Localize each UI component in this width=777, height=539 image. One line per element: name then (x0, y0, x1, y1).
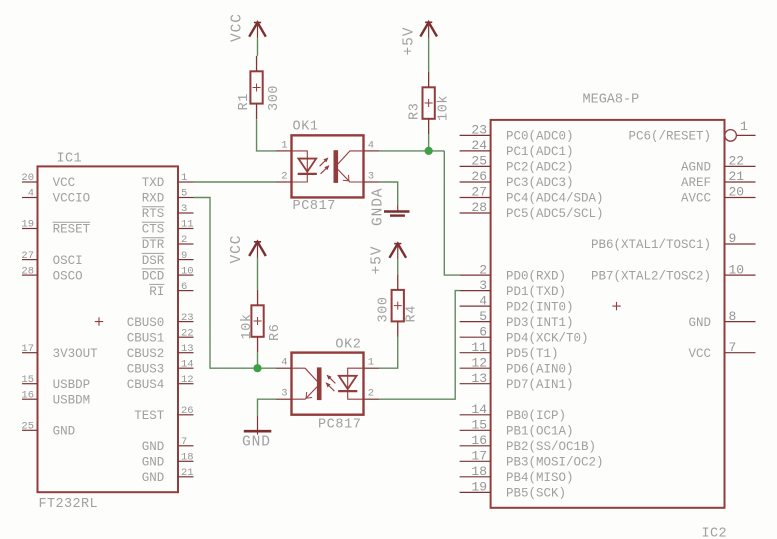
IC1 pin 15 (USBDP) left (21, 374, 90, 392)
svg-text:1: 1 (181, 172, 187, 184)
label GND net (242, 435, 271, 451)
svg-text:19: 19 (21, 219, 34, 231)
svg-text:PD2(INT0): PD2(INT0) (506, 300, 574, 314)
origin cross IC2 (612, 302, 620, 310)
IC2 pin 22 (AGND) right (681, 154, 756, 175)
svg-text:2: 2 (368, 388, 374, 400)
IC1 pin 12 (CBUS4) right (127, 374, 194, 392)
IC2 pin 12 (PD6(AIN0)) left (460, 355, 574, 376)
svg-text:USBDP: USBDP (53, 378, 91, 392)
IC1 pin 4 (VCCIO) left (22, 188, 90, 206)
svg-text:PB2(SS/OC1B): PB2(SS/OC1B) (506, 440, 596, 454)
svg-text:20: 20 (729, 185, 745, 200)
ground symbol GNDA (analog ground, below OK1 pin 3) (384, 205, 410, 216)
label PC817 (value of OK2) (318, 418, 362, 433)
IC2 pin 14 (PB0(ICP)) left (460, 402, 566, 423)
svg-text:TEST: TEST (134, 409, 165, 423)
resistor R3 (423, 72, 435, 135)
svg-text:+5V: +5V (370, 246, 386, 275)
svg-text:CBUS0: CBUS0 (127, 316, 165, 330)
origin cross IC1 (95, 317, 103, 325)
svg-text:17: 17 (471, 449, 487, 464)
svg-text:2: 2 (181, 234, 187, 246)
svg-text:GND: GND (688, 316, 711, 330)
svg-text:R4: R4 (404, 305, 419, 322)
IC2 pin 25 (PC2(ADC2)) left (460, 154, 574, 175)
wire VCC to R1 top (257, 38, 259, 56)
svg-text:GND: GND (142, 440, 165, 454)
svg-text:PB1(OC1A): PB1(OC1A) (506, 425, 574, 439)
svg-text:11: 11 (181, 219, 194, 231)
wire VCC to R6 top (257, 257, 259, 290)
svg-text:PC4(ADC4/SDA): PC4(ADC4/SDA) (506, 192, 604, 206)
svg-text:3: 3 (181, 203, 187, 215)
OK1 pin 4 (364, 139, 380, 151)
svg-text:28: 28 (21, 265, 34, 277)
svg-text:PD4(XCK/T0): PD4(XCK/T0) (506, 331, 589, 345)
svg-text:PC3(ADC3): PC3(ADC3) (506, 176, 574, 190)
svg-text:1: 1 (740, 119, 748, 134)
OK2 pin 1 (364, 357, 380, 369)
svg-text:11: 11 (471, 340, 487, 355)
svg-text:PC817: PC817 (318, 418, 362, 433)
svg-text:CBUS4: CBUS4 (127, 378, 165, 392)
svg-text:PC2(ADC2): PC2(ADC2) (506, 161, 574, 175)
IC2 pin 13 (PD7(AIN1)) left (460, 371, 574, 392)
ground symbol GND (below OK2 pin 3) (244, 416, 271, 435)
IC1 pin 27 (OSCI) left (21, 250, 82, 268)
svg-text:OSCI: OSCI (53, 254, 83, 268)
IC1 pin 23 (CBUS0) right (127, 312, 194, 330)
svg-text:22: 22 (729, 154, 745, 169)
svg-text:26: 26 (181, 405, 194, 417)
svg-text:4: 4 (281, 357, 287, 369)
svg-text:DSR: DSR (142, 254, 165, 268)
supply symbol VCC (middle, above R6) (249, 242, 266, 258)
svg-text:DCD: DCD (142, 269, 165, 283)
svg-text:PD7(AIN1): PD7(AIN1) (506, 378, 574, 392)
svg-text:21: 21 (729, 169, 745, 184)
svg-text:PD6(AIN0): PD6(AIN0) (506, 362, 574, 376)
svg-text:27: 27 (21, 250, 34, 262)
svg-text:3V3OUT: 3V3OUT (53, 347, 99, 361)
label MEGA8-P (value) (583, 93, 640, 108)
svg-text:17: 17 (21, 343, 34, 355)
svg-text:26: 26 (471, 169, 487, 184)
IC U2 MEGA8-P body (IC2) (491, 120, 725, 508)
svg-text:R6: R6 (268, 324, 283, 341)
svg-text:CBUS2: CBUS2 (127, 347, 165, 361)
svg-text:15: 15 (471, 418, 487, 433)
svg-text:300: 300 (377, 296, 392, 322)
IC2 pin 27 (PC4(ADC4/SDA)) left (460, 185, 604, 206)
svg-text:PB0(ICP): PB0(ICP) (506, 409, 566, 423)
svg-text:14: 14 (181, 358, 194, 370)
wire +5V to R3 top (428, 38, 430, 72)
svg-text:9: 9 (181, 250, 187, 262)
svg-text:PB4(MISO): PB4(MISO) (506, 471, 574, 485)
svg-text:+5V: +5V (402, 27, 418, 56)
IC1 pin 10 (DCD) right (142, 265, 194, 283)
svg-text:USBDM: USBDM (53, 393, 91, 407)
svg-text:16: 16 (471, 433, 487, 448)
svg-text:19: 19 (471, 480, 487, 495)
wire R4 bottom to OK2 pin 1 (379, 337, 398, 368)
OK1 pin 2 (276, 171, 292, 183)
svg-text:PC5(ADC5/SCL): PC5(ADC5/SCL) (506, 207, 604, 221)
svg-text:GNDA: GNDA (371, 188, 387, 226)
IC1 pin 9 (DSR) right (142, 250, 194, 268)
svg-text:PB6(XTAL1/TOSC1): PB6(XTAL1/TOSC1) (591, 238, 711, 252)
svg-text:PC1(ADC1): PC1(ADC1) (506, 145, 574, 159)
svg-text:4: 4 (479, 293, 487, 308)
svg-text:OSCO: OSCO (53, 269, 83, 283)
IC1 pin 19 (RESET) left (21, 219, 90, 237)
svg-text:7: 7 (729, 340, 737, 355)
label OK2 (name) (335, 337, 361, 352)
svg-text:10: 10 (729, 262, 745, 277)
IC1 pin 26 (TEST) right (134, 405, 193, 423)
IC2 pin 21 (AREF) right (681, 169, 756, 190)
IC2 pin 8 (GND) right (688, 309, 755, 330)
IC1 pin 28 (OSCO) left (21, 265, 82, 283)
svg-text:6: 6 (181, 281, 187, 293)
svg-text:16: 16 (21, 389, 34, 401)
IC1 pin 2 (DTR) right (142, 234, 194, 252)
IC2 pin 16 (PB2(SS/OC1B)) left (460, 433, 596, 454)
svg-text:18: 18 (471, 464, 487, 479)
svg-text:1: 1 (368, 357, 374, 369)
svg-text:R1: R1 (237, 93, 252, 110)
OK2 pin 3 (276, 388, 292, 400)
svg-text:IC1: IC1 (57, 152, 83, 167)
label R4 (name) (404, 305, 419, 322)
IC1 pin 6 (RI) right (149, 281, 193, 299)
IC2 pin 3 (PD1(TXD)) left (460, 278, 566, 299)
IC U1 FT232RL body (IC1) (38, 166, 179, 492)
IC1 pin 25 (GND) left (21, 421, 75, 439)
wire OK2 pin 2 to IC2 PD1 (379, 291, 460, 400)
IC2 pin 1 (PC6(/RESET)) right with inversion bubble (628, 119, 755, 144)
svg-text:22: 22 (181, 327, 194, 339)
svg-text:8: 8 (729, 309, 737, 324)
svg-text:OK1: OK1 (293, 120, 319, 135)
svg-text:PC6(/RESET): PC6(/RESET) (628, 130, 711, 144)
svg-text:TXD: TXD (142, 176, 165, 190)
label R6 (name) (268, 324, 283, 341)
svg-text:PD3(INT1): PD3(INT1) (506, 316, 574, 330)
IC1 pin 13 (CBUS2) right (127, 343, 194, 361)
svg-text:GND: GND (142, 456, 165, 470)
IC2 pin 26 (PC3(ADC3)) left (460, 169, 574, 190)
IC1 pin 14 (CBUS3) right (127, 358, 194, 376)
supply symbol VCC (top, above R1) (249, 23, 266, 39)
svg-text:R3: R3 (408, 103, 423, 120)
IC1 pin 1 (TXD) right (142, 172, 194, 190)
label IC1 (reference designator) (57, 152, 83, 167)
svg-text:23: 23 (471, 123, 487, 138)
junction node at R3 / OK1 pin 4 / PD0 net (425, 147, 433, 155)
IC2 pin 19 (PB5(SCK)) left (460, 480, 566, 501)
resistor R4 (392, 274, 404, 337)
svg-text:1: 1 (281, 139, 287, 151)
IC1 pin 7 (GND) right (142, 436, 194, 454)
svg-text:MEGA8-P: MEGA8-P (583, 93, 640, 108)
wire R3 bottom to junction (428, 134, 430, 151)
label 10k (value of R3) (437, 95, 452, 121)
svg-text:CTS: CTS (142, 223, 165, 237)
wire IC1 RXD to OK2 pin 4 (194, 198, 277, 369)
svg-text:20: 20 (21, 172, 34, 184)
svg-text:300: 300 (267, 85, 282, 111)
svg-text:10k: 10k (240, 313, 255, 339)
label VCC net (middle) (229, 235, 245, 264)
wire R6 bottom to junction 2 (257, 352, 259, 368)
IC2 pin 23 (PC0(ADC0)) left (460, 123, 574, 144)
svg-text:13: 13 (181, 343, 194, 355)
svg-text:9: 9 (729, 231, 737, 246)
IC1 pin 21 (GND) right (142, 467, 194, 485)
svg-text:GND: GND (242, 435, 271, 451)
svg-text:23: 23 (181, 312, 194, 324)
wire junction to IC2 PD0 (444, 151, 459, 275)
wire OK2 pin 3 to GND (258, 399, 277, 416)
junction node at R6 / RXD / OK2 pin 4 net (253, 364, 261, 372)
svg-text:5: 5 (181, 188, 187, 200)
label R3 (name) (408, 103, 423, 120)
svg-text:10k: 10k (437, 95, 452, 121)
svg-text:21: 21 (181, 467, 194, 479)
svg-text:AGND: AGND (681, 161, 711, 175)
IC1 pin 11 (CTS) right (142, 219, 194, 237)
svg-text:PB7(XTAL2/TOSC2): PB7(XTAL2/TOSC2) (591, 269, 711, 283)
svg-text:RESET: RESET (53, 223, 91, 237)
svg-text:VCCIO: VCCIO (53, 192, 91, 206)
svg-text:PD0(RXD): PD0(RXD) (506, 269, 566, 283)
svg-text:PD1(TXD): PD1(TXD) (506, 285, 566, 299)
svg-text:13: 13 (471, 371, 487, 386)
IC1 pin 20 (VCC) left (21, 172, 75, 190)
IC1 pin 3 (RTS) right (142, 203, 194, 221)
svg-text:10: 10 (181, 265, 194, 277)
svg-text:VCC: VCC (53, 176, 76, 190)
IC2 pin 2 (PD0(RXD)) left (460, 262, 566, 283)
IC2 pin 6 (PD4(XCK/T0)) left (460, 324, 589, 345)
svg-text:7: 7 (181, 436, 187, 448)
svg-text:RTS: RTS (142, 207, 165, 221)
svg-text:25: 25 (471, 154, 487, 169)
resistor R1 (250, 56, 262, 119)
svg-text:18: 18 (181, 452, 194, 464)
label 300 (value of R1) (267, 85, 282, 111)
wire R1 bottom to OK1 pin 1 (257, 119, 276, 151)
IC2 pin 9 (PB6(XTAL1/TOSC1)) right (591, 231, 756, 252)
OK1 pin 3 (364, 171, 380, 183)
optocoupler OK1 (PC817) (292, 135, 364, 197)
label +5V net (top) (402, 27, 418, 56)
svg-text:VCC: VCC (688, 347, 711, 361)
label PC817 (value of OK1) (293, 199, 337, 214)
wire OK1 pin 4 to junction and R3 (379, 150, 444, 152)
svg-text:AREF: AREF (681, 176, 711, 190)
svg-text:12: 12 (471, 355, 487, 370)
label IC2 (reference designator) (702, 527, 728, 539)
svg-text:2: 2 (281, 171, 287, 183)
label 10k (value of R6) (240, 313, 255, 339)
svg-text:14: 14 (471, 402, 487, 417)
label +5V net (middle) (370, 246, 386, 275)
label FT232RL (value) (39, 497, 99, 512)
svg-text:4: 4 (28, 188, 34, 200)
wire +5V to R4 top (397, 259, 399, 274)
svg-text:PC817: PC817 (293, 199, 337, 214)
IC1 pin 16 (USBDM) left (21, 389, 90, 407)
svg-text:PD5(T1): PD5(T1) (506, 347, 559, 361)
IC2 pin 28 (PC5(ADC5/SCL)) left (460, 200, 604, 221)
resistor R6 (251, 290, 263, 353)
supply symbol +5V (top, above R3) (420, 22, 437, 38)
svg-text:PC0(ADC0): PC0(ADC0) (506, 130, 574, 144)
svg-text:GND: GND (142, 471, 165, 485)
svg-text:28: 28 (471, 200, 487, 215)
svg-text:5: 5 (479, 309, 487, 324)
label 300 (value of R4) (377, 296, 392, 322)
svg-text:12: 12 (181, 374, 194, 386)
svg-text:OK2: OK2 (335, 337, 361, 352)
IC2 pin 24 (PC1(ADC1)) left (460, 138, 574, 159)
label GNDA net (371, 188, 387, 226)
svg-text:3: 3 (479, 278, 487, 293)
IC1 pin 18 (GND) right (142, 452, 194, 470)
IC2 pin 18 (PB4(MISO)) left (460, 464, 574, 485)
svg-text:27: 27 (471, 185, 487, 200)
svg-text:FT232RL: FT232RL (39, 497, 99, 512)
label VCC net (top) (230, 13, 246, 42)
IC1 pin 5 (RXD) right (142, 188, 194, 206)
svg-text:3: 3 (281, 388, 287, 400)
IC2 pin 10 (PB7(XTAL2/TOSC2)) right (591, 262, 756, 283)
wire IC1 TXD to OK1 pin 2 (194, 181, 277, 183)
svg-text:3: 3 (368, 171, 374, 183)
IC2 pin 7 (VCC) right (688, 340, 755, 361)
OK1 pin 1 (276, 139, 292, 151)
IC2 pin 11 (PD5(T1)) left (460, 340, 559, 361)
optocoupler OK2 (PC817) (292, 353, 364, 415)
svg-text:RI: RI (149, 285, 164, 299)
OK2 pin 4 (276, 357, 292, 369)
svg-text:25: 25 (21, 421, 34, 433)
IC1 pin 17 (3V3OUT) left (21, 343, 98, 361)
IC2 pin 5 (PD3(INT1)) left (460, 309, 574, 330)
IC2 pin 15 (PB1(OC1A)) left (460, 418, 574, 439)
svg-text:VCC: VCC (230, 13, 246, 42)
svg-text:GND: GND (53, 425, 76, 439)
IC2 pin 17 (PB3(MOSI/OC2)) left (460, 449, 604, 470)
IC2 pin 4 (PD2(INT0)) left (460, 293, 574, 314)
svg-text:15: 15 (21, 374, 34, 386)
supply symbol +5V (middle, above R4) (389, 244, 406, 260)
svg-text:VCC: VCC (229, 235, 245, 264)
label R1 (name) (237, 93, 252, 110)
svg-text:24: 24 (471, 138, 487, 153)
svg-text:2: 2 (479, 262, 487, 277)
svg-text:DTR: DTR (142, 238, 165, 252)
svg-text:CBUS3: CBUS3 (127, 362, 165, 376)
svg-text:RXD: RXD (142, 192, 165, 206)
svg-text:CBUS1: CBUS1 (127, 331, 165, 345)
label OK1 (name) (293, 120, 319, 135)
IC1 pin 22 (CBUS1) right (127, 327, 194, 345)
svg-text:4: 4 (368, 139, 374, 151)
wire OK1 pin 3 to GNDA (379, 182, 398, 206)
svg-text:PB5(SCK): PB5(SCK) (506, 487, 566, 501)
OK2 pin 2 (364, 388, 380, 400)
svg-text:6: 6 (479, 324, 487, 339)
IC2 pin 20 (AVCC) right (681, 185, 756, 206)
svg-text:AVCC: AVCC (681, 192, 711, 206)
svg-text:IC2: IC2 (702, 527, 728, 539)
svg-text:PB3(MOSI/OC2): PB3(MOSI/OC2) (506, 456, 604, 470)
